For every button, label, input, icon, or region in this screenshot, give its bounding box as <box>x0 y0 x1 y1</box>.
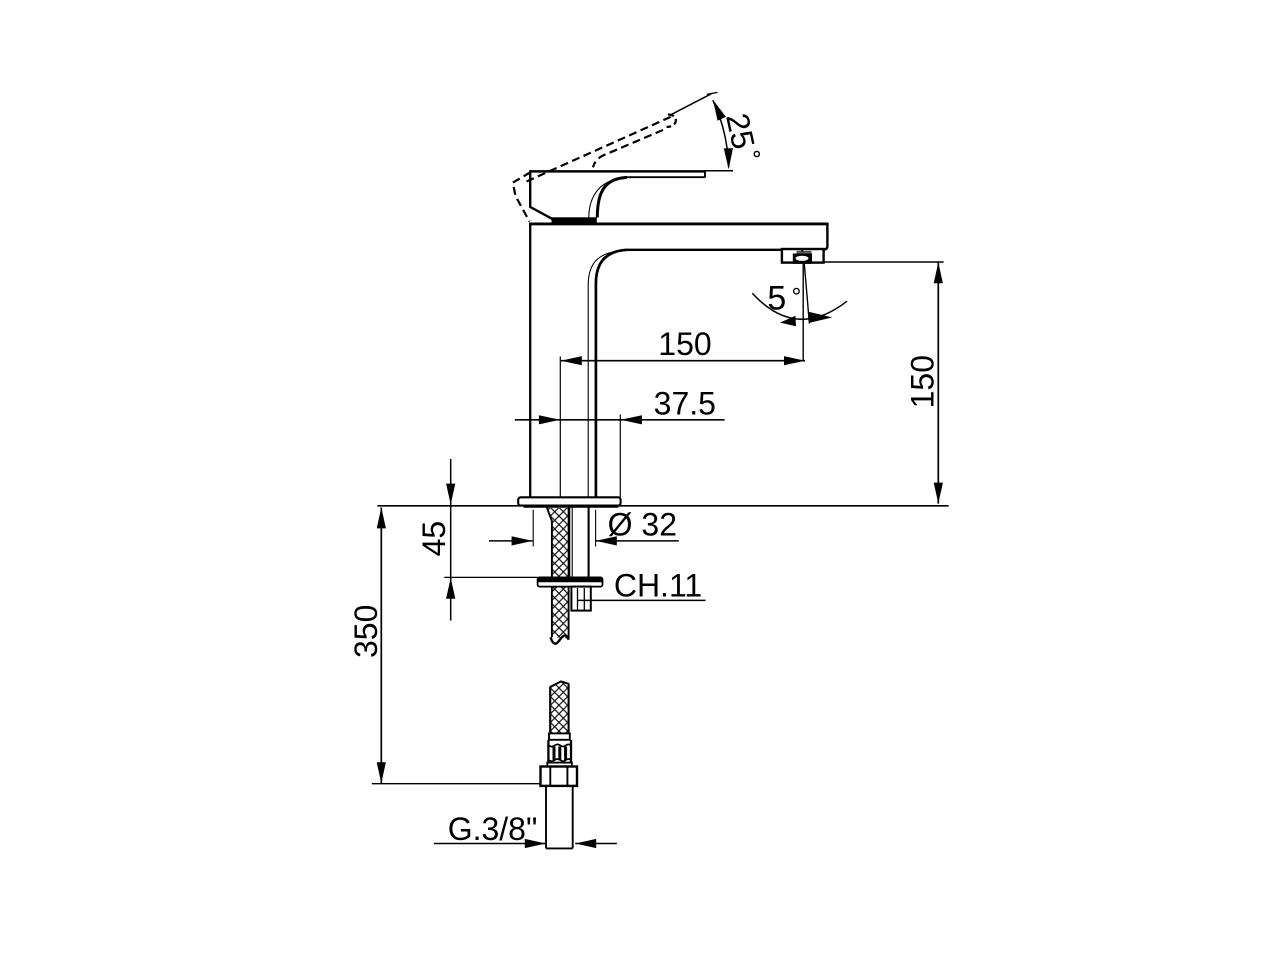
dim 5 arc <box>752 293 847 319</box>
dim G38 right line <box>575 843 617 845</box>
dim 5 degree <box>794 288 800 294</box>
dim 25 arc <box>713 100 729 167</box>
dim 37.5 line <box>515 419 725 421</box>
svg-text:350: 350 <box>348 605 384 658</box>
svg-text:Ø 32: Ø 32 <box>608 506 677 542</box>
dim G38 arrow left <box>525 839 546 848</box>
dashed raised handle tip <box>667 115 676 128</box>
locking washer <box>538 577 603 586</box>
handle lever top <box>530 170 706 173</box>
aerator tick <box>800 249 805 253</box>
handle underside lip <box>626 176 705 178</box>
dim 45 line <box>450 459 452 621</box>
svg-text:G.3/8": G.3/8" <box>448 811 538 847</box>
handle chamfer <box>529 207 553 220</box>
dashed raised handle left outline <box>513 172 531 221</box>
deck top <box>529 222 828 225</box>
handle neck curve <box>597 177 627 217</box>
upper hose break cut <box>551 636 569 644</box>
svg-text:150: 150 <box>904 355 940 408</box>
dim D32 ext right <box>595 510 597 547</box>
handle base bottom band <box>552 217 597 222</box>
dim 5 arrow right <box>809 312 832 323</box>
svg-text:45: 45 <box>416 521 452 557</box>
hex nut G3/8 <box>541 767 578 786</box>
dim 150 arrow right <box>784 356 805 365</box>
dim 37.5 arrow left <box>539 415 560 424</box>
flange shadow <box>524 505 619 508</box>
spout inner curve and body right edge <box>596 250 628 497</box>
dim 25 degree <box>754 151 759 156</box>
dashed raised handle top <box>527 117 672 182</box>
dim 150v arrow top <box>934 262 943 283</box>
aerator cap <box>797 251 812 254</box>
dim 25 arrow top <box>709 98 726 121</box>
lower hose right edge <box>568 683 570 733</box>
dim 45 ext line <box>444 576 538 578</box>
dim D32 arrow right <box>596 536 617 545</box>
dim 37.5 ext line <box>619 415 621 498</box>
dim 25 apex line <box>671 93 712 114</box>
dim 350 arrow bottom <box>377 762 386 783</box>
dim CH11 leader <box>578 599 706 601</box>
crimp sleeve collar bottom <box>547 763 572 767</box>
dim 150 ext line <box>559 357 561 498</box>
upper hose left edge <box>547 508 552 638</box>
dim G38 left line <box>434 843 546 845</box>
aerator body <box>782 249 824 263</box>
base flange <box>518 497 620 505</box>
svg-text:37.5: 37.5 <box>654 386 716 422</box>
svg-text:25: 25 <box>719 110 762 152</box>
lower hose top cut <box>550 681 569 687</box>
dim 350 arrow top <box>377 507 386 528</box>
crimp sleeve collar top <box>549 733 570 739</box>
dim 5 arrow left <box>780 316 796 326</box>
dim 5 tilted line <box>804 264 809 324</box>
dim 150 vertical line <box>937 262 939 503</box>
deck right edge <box>824 223 828 250</box>
dim 150 horizontal line <box>561 360 805 362</box>
dim 150v arrow bottom <box>934 483 943 504</box>
lower hose left edge <box>549 687 551 734</box>
upper hose right edge <box>568 508 570 639</box>
dim 37.5 arrow right <box>621 415 642 424</box>
svg-text:5: 5 <box>767 280 786 318</box>
dashed raised handle underside <box>593 130 663 167</box>
spout underside <box>628 249 783 251</box>
locking nut <box>571 587 590 611</box>
svg-text:CH.11: CH.11 <box>614 567 702 603</box>
dim 350 line <box>380 508 382 784</box>
body right highlight <box>588 251 621 497</box>
lower hose braid <box>550 682 568 734</box>
dim 45 arrow down <box>446 484 455 505</box>
dim 25 ext line <box>704 170 733 172</box>
dim 25 arrow bottom <box>724 148 734 169</box>
dim 5 vertical line <box>802 264 804 361</box>
countertop line <box>377 505 948 507</box>
aerator insert <box>793 254 812 264</box>
aerator slot <box>796 256 809 261</box>
svg-text:150: 150 <box>658 326 711 362</box>
dim 45 arrow up <box>446 578 455 599</box>
handle neck highlight <box>589 179 624 218</box>
dim G38 arrow right <box>575 839 596 848</box>
dim 25 apex tick <box>707 92 718 94</box>
dim D32 right line <box>596 540 679 542</box>
dim 150v ext line <box>824 261 944 263</box>
handle tip end cap <box>704 170 706 177</box>
body left edge <box>529 224 531 497</box>
upper hose braid <box>547 508 568 639</box>
crimp sleeve <box>548 740 571 763</box>
dim D32 ext left <box>532 510 534 547</box>
dim D32 arrow left <box>512 536 533 545</box>
dim 350 ext line <box>372 783 541 785</box>
dim D32 left line <box>489 540 533 542</box>
threaded stud <box>570 507 589 577</box>
end tube <box>546 786 573 848</box>
handle left edge <box>529 170 531 207</box>
dim 150 arrow left <box>561 356 582 365</box>
